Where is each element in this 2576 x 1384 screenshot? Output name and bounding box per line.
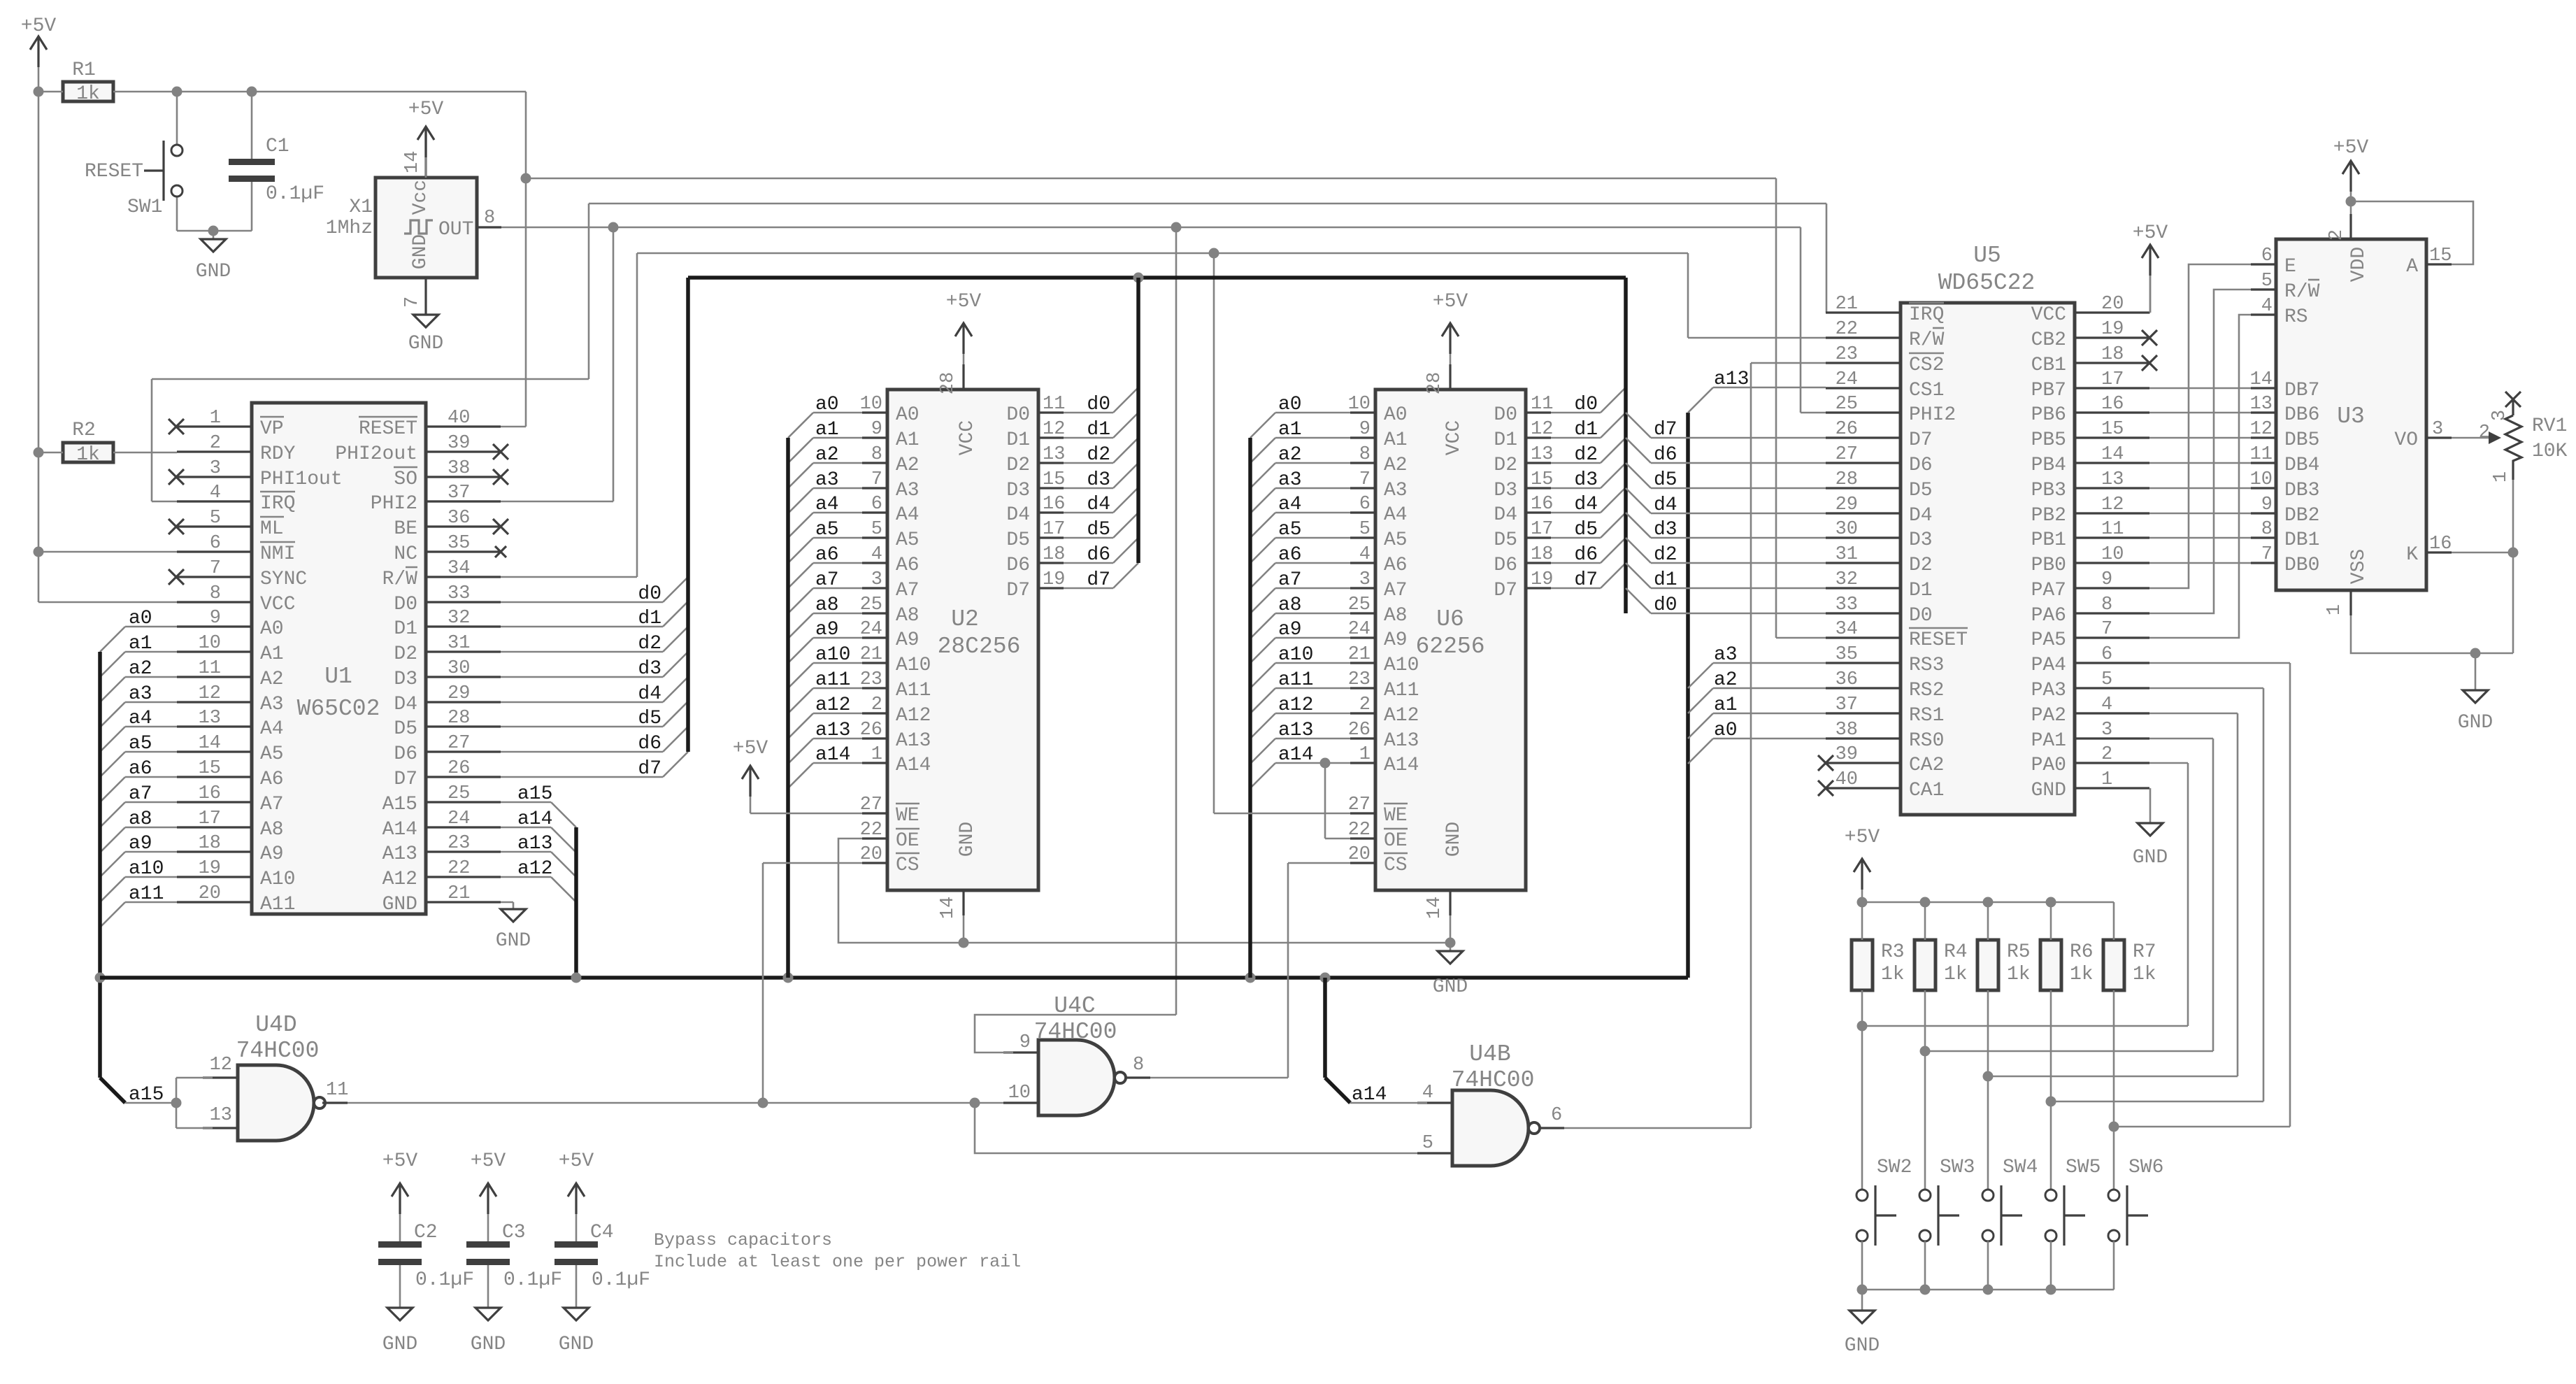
wire U6 WE riser [1213, 253, 1215, 813]
U6 pin stubs [1350, 411, 1375, 413]
svg-text:8: 8 [2261, 519, 2273, 540]
svg-text:37: 37 [448, 483, 470, 504]
svg-text:29: 29 [1836, 494, 1858, 515]
svg-text:28C256: 28C256 [938, 634, 1021, 659]
svg-text:27: 27 [1836, 444, 1858, 465]
IC U3 LCD module [2276, 239, 2426, 590]
svg-text:d6: d6 [1574, 544, 1598, 566]
svg-text:D5: D5 [1494, 529, 1517, 551]
svg-text:d4: d4 [1574, 494, 1598, 515]
svg-text:15: 15 [199, 758, 221, 779]
svg-text:GND: GND [2458, 712, 2493, 734]
wire a14 to U4B.4 [1350, 1102, 1427, 1104]
svg-text:27: 27 [860, 794, 882, 815]
svg-text:A9: A9 [896, 629, 920, 651]
resistor R5 1k [1977, 940, 1998, 990]
svg-text:RS: RS [2284, 306, 2308, 328]
svg-text:DB7: DB7 [2284, 380, 2319, 401]
svg-text:RV1: RV1 [2532, 415, 2567, 437]
bus junction U2 branch [783, 973, 794, 983]
svg-text:a0: a0 [129, 608, 152, 629]
wires PA0-PA4 risers [2149, 762, 2188, 764]
svg-text:17: 17 [1043, 519, 1065, 540]
svg-text:39: 39 [448, 433, 470, 454]
svg-text:CS1: CS1 [1909, 380, 1944, 401]
wire R6 to U5 PA3 [2051, 1101, 2263, 1103]
svg-text:R3: R3 [1881, 941, 1905, 963]
svg-text:DB0: DB0 [2284, 555, 2319, 576]
svg-text:7: 7 [210, 558, 221, 579]
svg-text:23: 23 [1348, 669, 1371, 690]
svg-text:16: 16 [2429, 534, 2452, 555]
svg-text:RS2: RS2 [1909, 680, 1944, 701]
svg-text:3: 3 [1359, 569, 1371, 590]
bus junction data bus to U2 [1133, 273, 1144, 283]
bus entry a13 [1688, 387, 1713, 413]
svg-text:15: 15 [2101, 419, 2124, 440]
svg-text:12: 12 [1531, 419, 1553, 440]
junction SW1 top [172, 87, 183, 97]
svg-text:PB7: PB7 [2031, 380, 2066, 401]
svg-text:A10: A10 [1384, 655, 1419, 676]
svg-text:A8: A8 [260, 819, 284, 841]
svg-text:28: 28 [1424, 372, 1445, 394]
svg-text:a3: a3 [815, 469, 839, 491]
svg-text:6: 6 [2261, 245, 2273, 266]
svg-text:A6: A6 [896, 555, 920, 576]
svg-text:25: 25 [448, 783, 470, 804]
svg-text:D3: D3 [394, 669, 417, 690]
svg-text:PA7: PA7 [2031, 580, 2066, 601]
svg-text:A5: A5 [1384, 529, 1408, 551]
svg-text:PHI2: PHI2 [371, 493, 417, 515]
svg-text:74HC00: 74HC00 [1452, 1067, 1535, 1093]
svg-text:9: 9 [1359, 419, 1371, 440]
svg-text:BE: BE [394, 518, 417, 540]
U3 pin stubs [2251, 263, 2276, 265]
svg-text:1: 1 [210, 408, 221, 429]
wire U4D out net [348, 1102, 975, 1104]
svg-text:3: 3 [2101, 720, 2112, 741]
svg-text:D0: D0 [1006, 404, 1030, 426]
svg-text:IRQ: IRQ [1909, 304, 1944, 326]
svg-text:+5V: +5V [1433, 291, 1468, 313]
svg-text:VCC: VCC [957, 420, 978, 455]
svg-text:12: 12 [199, 683, 221, 704]
wire R7 to U5 PA4 [2114, 1126, 2290, 1128]
svg-text:a5: a5 [815, 519, 839, 541]
power +5V (X1) [424, 127, 427, 157]
svg-text:a2: a2 [129, 658, 152, 680]
svg-text:A4: A4 [260, 718, 284, 740]
svg-text:GND: GND [957, 822, 978, 857]
svg-text:PHI2out: PHI2out [335, 443, 417, 465]
svg-text:GND: GND [382, 894, 417, 915]
svg-text:RESET: RESET [85, 161, 143, 183]
svg-text:WE: WE [1384, 805, 1408, 827]
svg-text:U5: U5 [1973, 243, 2001, 269]
svg-text:D7: D7 [394, 769, 417, 790]
svg-text:VSS: VSS [2348, 549, 2370, 584]
svg-text:21: 21 [1836, 294, 1858, 315]
svg-text:37: 37 [1836, 694, 1858, 715]
junction CLK to U4C.9 riser [1171, 222, 1182, 233]
NAND gate U4C 74HC00 [1038, 1040, 1115, 1115]
svg-text:W65C02: W65C02 [297, 696, 380, 722]
svg-text:GND: GND [408, 333, 443, 355]
junction U4D out to U2 CS [758, 1098, 768, 1108]
wire IRQ net [152, 501, 177, 503]
svg-text:U2: U2 [951, 606, 979, 632]
svg-text:A8: A8 [1384, 605, 1408, 627]
svg-text:PB6: PB6 [2031, 404, 2066, 426]
svg-text:1: 1 [871, 744, 882, 765]
svg-text:a2: a2 [1278, 444, 1302, 466]
resistor R4 1k [1915, 940, 1935, 990]
svg-text:A1: A1 [896, 429, 920, 451]
junction button gnd rail [1857, 1285, 1868, 1295]
svg-text:29: 29 [448, 683, 470, 704]
junction +5V rail R4 [1920, 897, 1931, 908]
svg-text:0.1µF: 0.1µF [503, 1269, 562, 1291]
svg-text:d2: d2 [638, 633, 661, 655]
svg-text:+5V: +5V [559, 1150, 594, 1172]
svg-text:PB0: PB0 [2031, 555, 2066, 576]
svg-text:A4: A4 [896, 504, 920, 526]
svg-text:RS0: RS0 [1909, 730, 1944, 752]
svg-text:a11: a11 [815, 669, 850, 691]
svg-text:5: 5 [210, 508, 221, 529]
svg-text:20: 20 [199, 883, 221, 904]
wire a13 to U5 CS1 [1713, 387, 1826, 389]
svg-text:1: 1 [2101, 769, 2112, 790]
svg-text:A14: A14 [896, 755, 931, 776]
junction +5V rail R3 [1857, 897, 1868, 908]
svg-text:A7: A7 [260, 794, 284, 815]
svg-text:62256: 62256 [1415, 634, 1484, 659]
wire U4C out to U6 CS [1150, 1077, 1288, 1079]
U1 address wires a0-a11 [125, 626, 177, 628]
svg-text:10K: 10K [2532, 441, 2568, 462]
svg-text:a10: a10 [1278, 644, 1313, 666]
svg-text:OE: OE [1384, 830, 1408, 852]
svg-text:PA4: PA4 [2031, 655, 2066, 676]
svg-text:40: 40 [1836, 769, 1858, 790]
svg-text:R/W: R/W [1909, 329, 1945, 351]
svg-text:GND: GND [2031, 780, 2066, 801]
svg-text:3: 3 [871, 569, 882, 590]
wire PA7 to U3 E [2149, 264, 2251, 588]
U2 pin stubs [862, 411, 887, 413]
svg-text:R5: R5 [2007, 941, 2031, 963]
svg-text:3: 3 [210, 458, 221, 479]
svg-text:VCC: VCC [2031, 304, 2066, 326]
svg-text:a12: a12 [815, 694, 850, 716]
svg-text:PA1: PA1 [2031, 730, 2066, 752]
svg-text:D3: D3 [1494, 480, 1517, 501]
wire NMI to U1.6 [38, 551, 177, 553]
U2 address bus entries [788, 413, 813, 438]
svg-text:d0: d0 [638, 583, 661, 605]
junction R6 / PA3 [2046, 1097, 2056, 1107]
svg-text:19: 19 [2101, 319, 2124, 340]
svg-text:A3: A3 [1384, 480, 1408, 501]
bus: address bus horizontal [100, 976, 1688, 980]
resistor R7 1k [2103, 940, 2124, 990]
switch SW6 [2113, 1127, 2115, 1190]
svg-text:27: 27 [448, 733, 470, 754]
bus junction a12-15 [571, 973, 582, 983]
junction R3 / PA0 [1857, 1021, 1868, 1032]
svg-text:D7: D7 [1909, 429, 1933, 451]
svg-text:14: 14 [2250, 369, 2273, 390]
U1 no-connect pins 1,3,5,7 [169, 419, 184, 434]
svg-text:A0: A0 [260, 618, 284, 640]
svg-text:14: 14 [402, 151, 423, 173]
svg-text:D1: D1 [394, 618, 417, 640]
svg-text:11: 11 [1043, 394, 1065, 415]
ground GND (C4) [564, 1308, 589, 1320]
svg-text:26: 26 [1348, 720, 1371, 741]
wire U4B out [1564, 1127, 1751, 1129]
svg-text:C1: C1 [266, 136, 289, 157]
junction R2 [34, 448, 44, 458]
svg-text:23: 23 [1836, 344, 1858, 365]
svg-text:D1: D1 [1909, 580, 1933, 601]
svg-text:D0: D0 [1494, 404, 1517, 426]
svg-text:GND: GND [410, 234, 431, 269]
svg-text:21: 21 [448, 883, 470, 904]
capacitor C4 bypass [575, 1183, 577, 1214]
svg-text:DB3: DB3 [2284, 480, 2319, 501]
svg-text:D4: D4 [394, 694, 417, 715]
U6 address wires a0-a14 [1275, 412, 1350, 414]
svg-text:CA2: CA2 [1909, 755, 1944, 776]
svg-text:23: 23 [448, 833, 470, 854]
svg-text:24: 24 [1836, 369, 1858, 390]
svg-text:VCC: VCC [1443, 420, 1465, 455]
wire U4D out to U4B.5 [975, 1103, 1427, 1153]
svg-text:a3: a3 [129, 683, 152, 705]
svg-text:K: K [2406, 544, 2418, 566]
svg-text:a14: a14 [815, 744, 850, 766]
capacitor C2 bypass [399, 1183, 401, 1214]
svg-text:a5: a5 [1278, 519, 1302, 541]
svg-text:4: 4 [2261, 296, 2273, 317]
svg-text:20: 20 [2101, 294, 2124, 315]
svg-text:16: 16 [1043, 494, 1065, 515]
svg-text:R/W: R/W [2284, 281, 2320, 303]
svg-text:D3: D3 [1909, 529, 1933, 551]
svg-text:E: E [2284, 256, 2296, 278]
svg-text:R6: R6 [2070, 941, 2094, 963]
svg-text:A13: A13 [382, 843, 417, 865]
svg-text:8: 8 [1133, 1055, 1144, 1076]
svg-text:D5: D5 [394, 718, 417, 740]
U6 east data bus entries [1626, 413, 1651, 438]
svg-text:24: 24 [448, 808, 470, 829]
svg-text:5: 5 [1359, 519, 1371, 540]
svg-text:a13: a13 [815, 720, 850, 741]
wire PA6 to U3 R/W [2149, 290, 2251, 613]
svg-text:d5: d5 [638, 708, 661, 729]
svg-text:a9: a9 [1278, 619, 1302, 641]
svg-text:A14: A14 [1384, 755, 1419, 776]
svg-text:6: 6 [2101, 644, 2112, 665]
bus entry a14 (U4B) [1325, 1078, 1350, 1103]
svg-text:A3: A3 [260, 694, 284, 715]
svg-text:d6: d6 [1087, 544, 1110, 566]
wires a3-a0 to RS3-RS0 [1713, 662, 1826, 664]
svg-text:a1: a1 [1278, 419, 1302, 441]
junction U4D inputs [171, 1098, 182, 1108]
junction RESET branch [521, 173, 531, 184]
svg-text:VO: VO [2394, 429, 2418, 451]
svg-text:13: 13 [199, 708, 221, 729]
svg-text:a0: a0 [815, 394, 839, 415]
svg-text:28: 28 [448, 708, 470, 729]
svg-text:d0: d0 [1574, 394, 1598, 415]
svg-text:4: 4 [1359, 544, 1371, 565]
svg-text:a4: a4 [1278, 494, 1302, 515]
svg-text:D4: D4 [1006, 504, 1030, 526]
svg-text:2: 2 [1359, 694, 1371, 715]
svg-text:14: 14 [1424, 897, 1445, 919]
svg-text:32: 32 [1836, 569, 1858, 590]
svg-text:24: 24 [860, 619, 882, 640]
potentiometer RV1 10K [2505, 415, 2521, 464]
svg-text:d1: d1 [638, 608, 661, 629]
svg-text:a1: a1 [129, 633, 152, 655]
wires PB7-PB0 to DB7-DB0 [2149, 387, 2251, 390]
junction VSS/GND [2470, 648, 2481, 659]
svg-text:21: 21 [860, 644, 882, 665]
svg-text:+5V: +5V [408, 99, 444, 120]
svg-text:7: 7 [402, 297, 423, 308]
IC U5 WD65C22 VIA [1901, 303, 2075, 815]
svg-text:13: 13 [2250, 394, 2273, 415]
svg-text:+5V: +5V [1845, 827, 1880, 848]
svg-text:9: 9 [871, 419, 882, 440]
power +5V rail top-left [37, 36, 39, 67]
svg-text:35: 35 [1836, 644, 1858, 665]
svg-text:CA1: CA1 [1909, 780, 1944, 801]
bus: address riser U6 [1248, 438, 1252, 978]
bus: address bus riser to U5 [1686, 413, 1690, 978]
svg-text:SW4: SW4 [2003, 1157, 2038, 1178]
resistor R2 [63, 443, 113, 462]
svg-text:0.1µF: 0.1µF [415, 1269, 474, 1291]
svg-text:D0: D0 [394, 594, 417, 615]
svg-text:U4D: U4D [255, 1012, 296, 1038]
U5 no-connect CB2/CB1 [2142, 330, 2157, 345]
U1 data bus entries [663, 577, 688, 602]
wire PHI2 to U4C.9 [975, 1015, 1176, 1053]
svg-text:SYNC: SYNC [260, 569, 307, 590]
svg-text:PB1: PB1 [2031, 529, 2066, 551]
svg-text:A13: A13 [896, 730, 931, 752]
svg-text:2: 2 [2101, 744, 2112, 765]
switch SW3 [1924, 1051, 1926, 1190]
svg-text:d4: d4 [1087, 494, 1110, 515]
svg-text:31: 31 [448, 633, 470, 654]
svg-text:38: 38 [1836, 720, 1858, 741]
svg-text:6: 6 [871, 494, 882, 515]
svg-text:A11: A11 [1384, 680, 1419, 701]
svg-text:d3: d3 [1087, 469, 1110, 491]
NAND gate U4D 74HC00 [238, 1065, 314, 1141]
junction NMI [34, 547, 44, 557]
svg-text:A1: A1 [1384, 429, 1408, 451]
svg-text:32: 32 [448, 608, 470, 629]
wire R/W net [501, 576, 637, 578]
svg-text:SW2: SW2 [1877, 1157, 1912, 1178]
svg-text:A2: A2 [260, 669, 284, 690]
svg-text:35: 35 [448, 533, 470, 554]
svg-text:a4: a4 [129, 708, 152, 729]
svg-text:27: 27 [1348, 794, 1371, 815]
U1 address bus entries a0-a11 [100, 627, 125, 652]
svg-text:VP: VP [260, 418, 284, 440]
bus junction U4B a14 branch [1320, 973, 1331, 983]
ground GND (U6) [1450, 943, 1452, 951]
svg-text:+5V: +5V [946, 291, 982, 313]
svg-text:+5V: +5V [382, 1150, 418, 1172]
svg-text:D6: D6 [1494, 555, 1517, 576]
svg-text:NMI: NMI [260, 543, 295, 565]
junction a14/OE [1320, 758, 1331, 769]
junction button gnd rail [1920, 1285, 1931, 1295]
ground GND (C3) [475, 1308, 501, 1320]
svg-text:U3: U3 [2337, 404, 2365, 429]
svg-text:d0: d0 [1087, 394, 1110, 415]
svg-text:A8: A8 [896, 605, 920, 627]
svg-text:19: 19 [1531, 569, 1553, 590]
svg-text:NC: NC [394, 543, 417, 565]
power +5V (U6 VCC) [1449, 323, 1451, 354]
svg-text:7: 7 [2261, 544, 2273, 565]
svg-text:15: 15 [2429, 245, 2452, 266]
svg-text:22: 22 [860, 820, 882, 841]
svg-text:13: 13 [1531, 444, 1553, 465]
svg-text:11: 11 [2101, 519, 2124, 540]
svg-text:26: 26 [860, 720, 882, 741]
wire +5V to U3 A (pin15) [2351, 201, 2473, 264]
svg-text:CS: CS [896, 855, 920, 876]
svg-text:17: 17 [2101, 369, 2124, 390]
switch SW1 [176, 92, 178, 145]
svg-text:33: 33 [1836, 594, 1858, 615]
switch SW4 [1987, 1076, 1989, 1190]
svg-text:16: 16 [199, 783, 221, 804]
svg-text:RS1: RS1 [1909, 705, 1944, 727]
svg-text:10: 10 [2101, 544, 2124, 565]
svg-text:D6: D6 [1006, 555, 1030, 576]
svg-text:d7: d7 [1574, 569, 1598, 591]
IC U2 28C256 EEPROM [887, 390, 1038, 890]
bus: data riser U6 [1624, 278, 1628, 613]
svg-text:1k: 1k [2070, 964, 2094, 985]
svg-text:PA5: PA5 [2031, 629, 2066, 651]
svg-text:13: 13 [2101, 469, 2124, 490]
svg-text:a10: a10 [129, 858, 164, 880]
svg-text:a13: a13 [517, 833, 552, 855]
svg-text:A7: A7 [1384, 580, 1408, 601]
NAND gate U4B 74HC00 [1452, 1090, 1529, 1166]
svg-text:20: 20 [860, 844, 882, 865]
svg-text:d1: d1 [1087, 419, 1110, 441]
switch SW5 [2050, 1101, 2052, 1190]
